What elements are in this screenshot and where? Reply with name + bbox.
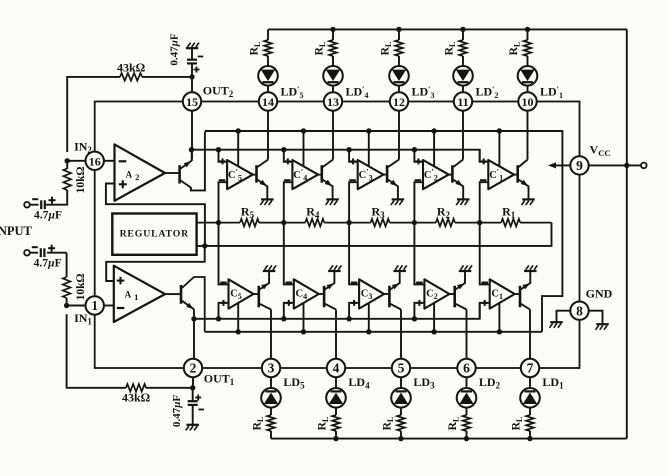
transistor Q-C&#39;2 [449, 160, 464, 199]
resistor RL (top column 2) [459, 40, 467, 56]
label 43k top [117, 61, 145, 75]
label 0.47uF top [169, 33, 181, 66]
ground comparator C1 [524, 265, 537, 271]
LED LD1 [520, 388, 540, 408]
node LD&#39;1 [540, 84, 563, 100]
svg-text:13: 13 [327, 95, 339, 109]
junction top rail dots [330, 27, 530, 32]
svg-text:9: 9 [576, 158, 583, 173]
node LD&#39;4 [345, 84, 368, 100]
LED LD&#39;2 [453, 66, 473, 86]
transistor Q-C&#39;3 [383, 160, 399, 199]
wire comparator C&#39;4 plus input to OUT2 rail [284, 150, 293, 162]
wire internal supply rail lower (y332) [205, 331, 542, 333]
wire comparator C2 plus input to OUT1 rail [414, 303, 424, 319]
svg-text:11: 11 [457, 95, 468, 109]
resistor RL (bottom column 2) [463, 415, 471, 431]
LED LD&#39;4 [323, 66, 343, 86]
svg-text:6: 6 [463, 361, 470, 376]
wire pin 9 internal arrow [548, 162, 570, 168]
junction bottom rail dots [333, 436, 532, 441]
wire A2 emitter to OUT2 node [191, 150, 193, 160]
node LD3 [413, 375, 435, 391]
resistor 43k top [120, 73, 142, 81]
node OUT1 [204, 372, 235, 388]
pin 8 [570, 302, 588, 320]
LED LD&#39;5 [258, 66, 278, 86]
transistor Q-C&#39;5 [253, 160, 268, 199]
label C&#39;1 [489, 166, 503, 182]
LED LD&#39;1 [518, 66, 538, 86]
resistor R3 [371, 219, 390, 227]
junction dots divider chain nodes [216, 220, 483, 225]
label C&#39;5 [228, 166, 242, 182]
label INPUT [0, 224, 33, 238]
ground comparator C&#39;3 [391, 199, 404, 205]
resistor R1 [501, 219, 520, 227]
LED LD4 [326, 388, 346, 408]
label R1 [502, 205, 516, 221]
ground comparator C5 [263, 265, 276, 271]
node OUT2 [203, 84, 234, 100]
junction Vcc terminal on right rail [624, 163, 629, 168]
resistor RL (top column 3) [395, 40, 403, 56]
junction IN1 node [64, 303, 69, 308]
wire A2 feedback to reference rail [106, 184, 205, 246]
comparator C5 [220, 279, 253, 308]
wire pin 8 right ground [589, 311, 603, 324]
wire comparator C&#39;1 plus input to OUT2 rail [480, 150, 489, 162]
transistor Q-C&#39;4 [318, 160, 333, 199]
label R5 [241, 205, 255, 221]
svg-text:4: 4 [333, 361, 340, 376]
pin 11 [454, 92, 472, 110]
wire OUT2 signal rail (y150) [192, 150, 480, 162]
label 10k bottom [75, 273, 87, 300]
junction IN2 node [65, 158, 70, 163]
node LD&#39;3 [411, 84, 434, 100]
pin 15 [183, 92, 201, 110]
node LD4 [348, 375, 370, 391]
junction OUT1 feedback node at pin 2 [190, 385, 195, 390]
svg-text:INPUT: INPUT [0, 224, 33, 238]
svg-text:10: 10 [522, 95, 534, 109]
svg-text:GND: GND [586, 287, 613, 301]
wire comparator C2 minus input to divider node [414, 223, 424, 285]
wire comparator C&#39;5 minus input to divider node [219, 182, 228, 222]
wire pin 15 to OUT2 node and 0.47uF [191, 63, 193, 159]
node LD&#39;2 [475, 84, 498, 100]
wire comparator C1 minus input to divider node [480, 223, 490, 285]
svg-text:15: 15 [186, 95, 198, 109]
LED LD2 [457, 388, 477, 408]
label 43k bottom [122, 391, 150, 405]
wire comparator C&#39;2 plus input to OUT2 rail [414, 150, 423, 162]
wire comparator C&#39;4 minus input to divider node [284, 182, 293, 222]
capacitor 4.7uF bottom [24, 245, 66, 257]
pin 6 [457, 359, 475, 377]
op-amp A1 [104, 266, 165, 322]
wire comparator C3 minus input to divider node [349, 223, 359, 285]
pin 4 [327, 359, 345, 377]
label RL bottom 4 [317, 417, 331, 431]
node LD5 [283, 375, 305, 391]
ground comparator C2 [459, 265, 472, 271]
pin 16 [86, 152, 104, 170]
label C4 [296, 289, 308, 302]
transistor Q-A1 [165, 277, 205, 332]
LED LD3 [391, 388, 411, 408]
svg-text:0.47µF: 0.47µF [171, 395, 183, 428]
resistor RL (bottom column 4) [332, 415, 340, 431]
label C1 [491, 289, 503, 302]
wire pin 14 column (rail to RL, RL to LD&#39;5, LD to pin, pin into IC) [267, 29, 269, 159]
wire pin 4 column (IC to pin, pin to LD4, LD to RL, RL to rail) [335, 310, 337, 439]
comparator C&#39;5 [219, 158, 253, 189]
wire pin 3 column (IC to pin, pin to LD5, LD to RL, RL to rail) [270, 310, 272, 439]
wire A1 emitter to OUT1 node and pin 2 [193, 309, 195, 359]
svg-text:16: 16 [89, 154, 101, 168]
label C2 [426, 289, 438, 302]
transistor Q-C&#39;1 [514, 160, 529, 199]
junction dots supply rail upper [236, 128, 503, 133]
ground comparator C&#39;5 [260, 199, 273, 205]
pin 9 [570, 156, 588, 174]
pin 1 [86, 296, 104, 314]
comparator C&#39;1 [480, 158, 514, 189]
svg-text:7: 7 [527, 361, 534, 376]
label 0.47uF bottom [171, 395, 183, 428]
label 10k top [75, 166, 87, 193]
wire pin 16 to IN2 node [67, 160, 85, 162]
transistor Q-C1 [515, 271, 531, 309]
junction regulator rail / op-amp reference node [202, 243, 207, 248]
svg-text:10kΩ: 10kΩ [75, 273, 87, 300]
wire comparator C5 supply [237, 303, 239, 332]
wire pin 2 to OUT1 node [192, 377, 194, 401]
wire comparator C&#39;1 minus input to divider node [480, 182, 489, 222]
wire A1 feedback to reference rail [106, 246, 205, 281]
svg-text:1: 1 [91, 298, 98, 313]
label C&#39;2 [424, 166, 438, 182]
ground comparator C&#39;1 [522, 199, 535, 205]
label RL bottom 3 [382, 417, 396, 431]
label RL bottom 2 [447, 417, 461, 431]
wire comparator C1 supply [498, 303, 500, 332]
resistor RL (top column 4) [329, 40, 337, 56]
wire comparator C&#39;4 supply [303, 131, 305, 166]
svg-text:REGULATOR: REGULATOR [120, 229, 190, 240]
resistor 43k bottom [126, 384, 146, 392]
junction OUT2 feedback node at pin 15 [189, 74, 194, 79]
pin 5 [392, 359, 410, 377]
wire OUT2 feedback (pin15 to 43k to IN2 node) [67, 77, 192, 152]
wire regulator output return rail (y246) with right wrap to R1 [195, 223, 551, 246]
label R3 [372, 205, 386, 221]
label 4.7uF bottom [34, 258, 62, 270]
pin 2 [184, 359, 202, 377]
wire comparator C1 plus input to OUT1 rail [480, 303, 490, 319]
LED LD5 [261, 388, 281, 408]
wire pin 12 column (rail to RL, RL to LD&#39;3, LD to pin, pin into IC) [398, 29, 400, 159]
ground comparator C&#39;2 [456, 199, 469, 205]
transistor Q-C4 [319, 271, 336, 309]
regulator block [112, 214, 196, 255]
label A2 [126, 170, 140, 183]
resistor RL (bottom column 1) [526, 415, 534, 431]
label R2 [437, 205, 451, 221]
IC package boundary [95, 102, 580, 369]
comparator C&#39;3 [349, 158, 383, 189]
label RL bottom 5 [252, 417, 266, 431]
comparator C1 [481, 279, 514, 308]
resistor RL (bottom column 3) [397, 415, 405, 431]
label RL top 4 [314, 42, 328, 56]
wire OUT1 feedback (pin2 to 43k to IN1 node) [67, 314, 193, 388]
wire pin 8 left ground [557, 311, 571, 322]
wire comparator C3 plus input to OUT1 rail [349, 303, 359, 319]
comparator C2 [416, 279, 449, 308]
label C5 [230, 289, 242, 302]
svg-text:4.7µF: 4.7µF [34, 258, 62, 270]
wire comparator C&#39;3 supply [368, 131, 370, 166]
wire comparator C5 minus input to divider node [219, 223, 229, 285]
label R4 [306, 205, 320, 221]
wire comparator C&#39;3 minus input to divider node [349, 182, 358, 222]
label A1 [125, 290, 139, 303]
svg-text:12: 12 [393, 95, 405, 109]
pin 13 [324, 92, 342, 110]
resistor RL (top column 1) [524, 40, 532, 56]
resistor RL (top column 5) [264, 40, 272, 56]
node LD2 [479, 375, 501, 391]
wire comparator C2 supply [433, 303, 435, 332]
resistor 10k top [63, 169, 71, 191]
svg-text:3: 3 [268, 361, 275, 376]
label 4.7uF top [34, 210, 62, 222]
svg-text:5: 5 [398, 361, 405, 376]
wire comparator C5 plus input to OUT1 rail [219, 303, 229, 319]
wire comparator C&#39;2 supply [433, 131, 435, 166]
wire comparator C3 supply [368, 303, 370, 332]
comparator C&#39;2 [415, 158, 449, 189]
node VCC [590, 143, 611, 159]
label RL top 3 [380, 42, 394, 56]
wire reference divider chain (y222.6) [195, 222, 551, 224]
ground comparator C3 [393, 265, 406, 271]
pin 14 [259, 92, 277, 110]
ground pin 8 left [550, 322, 563, 328]
capacitor 4.7uF top [24, 197, 55, 209]
wire pin 9 to Vcc terminal [589, 164, 641, 166]
transistor Q-C3 [384, 271, 401, 309]
comparator C4 [286, 279, 319, 308]
junction dots OUT1 rail [191, 316, 417, 321]
resistor RL (bottom column 5) [267, 415, 275, 431]
LED LD&#39;3 [389, 66, 409, 86]
wire comparator C4 minus input to divider node [284, 223, 294, 285]
svg-text:8: 8 [576, 303, 583, 318]
wire comparator C4 supply [303, 303, 305, 332]
svg-text:10kΩ: 10kΩ [75, 166, 87, 193]
op-amp A2 [104, 144, 165, 200]
wire internal supply rail upper (y131) with right-side wrap [205, 131, 563, 332]
svg-text:43kΩ: 43kΩ [122, 391, 150, 405]
junction dots supply rail lower [236, 329, 503, 334]
wire OUT1 signal rail (y319) [194, 303, 480, 319]
wire pin 1 to IN1 node [67, 305, 86, 307]
wire comparator C&#39;1 supply [498, 131, 500, 166]
node GND [586, 287, 613, 301]
wire IN2 node down to 10k and 4.7uF [46, 161, 67, 205]
wire pin 5 column (IC to pin, pin to LD3, LD to RL, RL to rail) [400, 310, 402, 439]
resistor R5 [240, 219, 259, 227]
label C3 [361, 289, 373, 302]
pin 7 [521, 359, 539, 377]
label RL top 1 [508, 42, 522, 56]
wire comparator C4 plus input to OUT1 rail [284, 303, 294, 319]
node LD1 [542, 375, 564, 391]
pin 10 [518, 92, 536, 110]
label C&#39;4 [293, 166, 307, 182]
wire VCC right rail [626, 29, 628, 438]
wire pin 11 column (rail to RL, RL to LD&#39;2, LD to pin, pin into IC) [462, 29, 464, 159]
pin 12 [390, 92, 408, 110]
resistor 10k bottom [63, 277, 71, 298]
svg-text:43kΩ: 43kΩ [117, 61, 145, 75]
wire pin 6 column (IC to pin, pin to LD2, LD to RL, RL to rail) [466, 310, 468, 439]
wire comparator C&#39;3 plus input to OUT2 rail [349, 150, 358, 162]
svg-text:0.47µF: 0.47µF [169, 33, 181, 66]
ground pin 8 right [596, 324, 609, 330]
wire IN1 node down nets [66, 253, 68, 306]
wire comparator C&#39;5 plus input to OUT2 rail [219, 150, 228, 162]
capacitor 0.47uF bottom [186, 395, 204, 431]
node IN2 [74, 140, 92, 156]
label RL bottom 1 [511, 417, 525, 431]
resistor R2 [436, 219, 455, 227]
transistor Q-C5 [254, 271, 272, 309]
junction dots OUT2 rail [189, 147, 417, 152]
svg-text:2: 2 [190, 361, 197, 376]
ground comparator C&#39;4 [326, 199, 339, 205]
wire VCC bottom rail [271, 438, 627, 440]
transistor Q-C2 [449, 271, 466, 309]
comparator C3 [351, 279, 384, 308]
node IN1 [74, 311, 92, 327]
comparator C&#39;4 [284, 158, 318, 189]
wire pin 7 column (IC to pin, pin to LD1, LD to RL, RL to rail) [529, 310, 531, 439]
transistor Q-A2 [165, 132, 205, 191]
terminal Vcc [641, 163, 647, 169]
label C&#39;3 [359, 166, 373, 182]
ground comparator C4 [328, 265, 341, 271]
svg-text:14: 14 [262, 95, 274, 109]
label RL top 5 [249, 42, 263, 56]
wire pin 10 column (rail to RL, RL to LD&#39;1, LD to pin, pin into IC) [527, 29, 529, 159]
wire comparator C&#39;5 supply [237, 131, 239, 166]
capacitor 0.47uF top [186, 43, 204, 73]
resistor R4 [305, 219, 324, 227]
svg-text:4.7µF: 4.7µF [34, 210, 62, 222]
node LD&#39;5 [280, 84, 303, 100]
pin 3 [262, 359, 280, 377]
wire pin 13 column (rail to RL, RL to LD&#39;4, LD to pin, pin into IC) [332, 29, 334, 159]
wire VCC top rail [268, 28, 627, 30]
wire comparator C&#39;2 minus input to divider node [414, 182, 423, 222]
label RL top 2 [444, 42, 458, 56]
